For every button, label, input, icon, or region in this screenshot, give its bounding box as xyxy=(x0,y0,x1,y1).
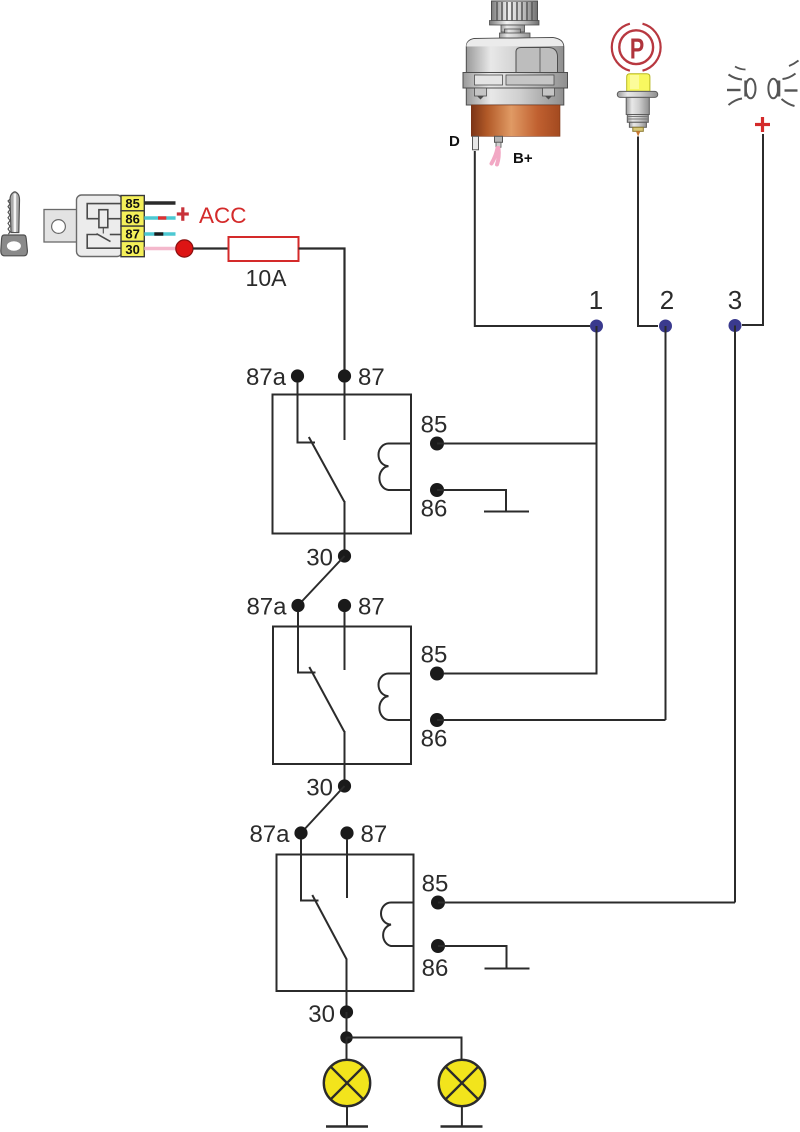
relay K2 common lead to terminal 30 xyxy=(344,731,346,786)
ignition key icon xyxy=(1,192,28,256)
wire relay K1 30 to relay K2 87a xyxy=(298,556,345,606)
alternator B+ pigtail wire (pink) xyxy=(492,148,499,165)
relay K3 terminal 87a xyxy=(294,826,307,839)
relay K2 terminal 87a xyxy=(291,599,304,612)
wire junction to lamp L1 xyxy=(346,1038,348,1061)
relay K1 contact 87a lead xyxy=(298,382,316,443)
wire headlight + to node 3 xyxy=(742,134,763,325)
svg-text:30: 30 xyxy=(125,242,139,257)
wire relay K3 30 to lamp junction xyxy=(346,1012,348,1038)
node 1 riser wire down to relay K2 85 xyxy=(444,326,597,674)
wire junction to lamp L2 xyxy=(347,1038,462,1061)
svg-text:86: 86 xyxy=(421,496,448,523)
relay K3 box xyxy=(277,855,414,992)
relay socket body xyxy=(77,195,123,257)
ground (relay K3 86) xyxy=(485,968,530,970)
wire pin 86 (cyan with red stripe) xyxy=(144,216,175,219)
svg-text:P: P xyxy=(630,33,644,65)
svg-text:87a: 87a xyxy=(246,594,287,621)
relay K1 terminal 87 xyxy=(338,369,351,382)
relay K3 contact 87 lead xyxy=(346,839,348,898)
relay K3 terminal 87 xyxy=(340,826,353,839)
wire pin 85 (black) xyxy=(144,201,175,205)
ground (lamp L2) xyxy=(441,1125,483,1127)
lamp L1 xyxy=(324,1060,370,1106)
wire pin 87 (cyan with black stripe) xyxy=(144,232,175,235)
wire relay K3 86 to ground xyxy=(438,946,507,969)
relay K1 terminal 87a xyxy=(291,369,304,382)
svg-text:87: 87 xyxy=(361,821,388,848)
wire alternator D to node 1 xyxy=(475,151,590,326)
brake switch push button (3D icon) xyxy=(617,74,657,137)
lamp L2 xyxy=(439,1060,485,1106)
svg-text:87: 87 xyxy=(358,594,385,621)
relay K1 contact 87 lead xyxy=(344,382,346,440)
relay K3 contact blade xyxy=(312,895,346,960)
relay K1 terminal 85 xyxy=(430,437,444,451)
relay K3 coil xyxy=(381,903,413,947)
relay K2 contact blade xyxy=(309,667,344,732)
svg-text:86: 86 xyxy=(125,211,139,226)
svg-text:30: 30 xyxy=(306,775,333,802)
relay K1 coil xyxy=(378,444,411,491)
fuse F1 xyxy=(229,237,299,261)
wire pin 30 (pink) xyxy=(144,247,178,250)
relay K3 terminal 30 xyxy=(340,1005,353,1018)
relay K1 common lead to terminal 30 xyxy=(344,501,346,556)
relay K2 terminal 30 xyxy=(338,779,351,792)
relay K1 box xyxy=(273,395,412,534)
relay K3 terminal 85 xyxy=(431,896,445,910)
relay K2 contact 87a lead xyxy=(298,612,316,673)
node 1 xyxy=(590,320,603,333)
node 3 riser wire xyxy=(734,326,736,903)
parking brake lamp symbol (P) xyxy=(612,24,661,71)
svg-text:85: 85 xyxy=(125,196,139,211)
node 2 riser wire xyxy=(665,326,667,720)
wire relay K2 30 to relay K3 87a xyxy=(301,786,345,833)
ground (relay K1 86) xyxy=(484,511,529,513)
svg-text:ACC: ACC xyxy=(199,203,247,228)
wire fuse to relay K1 pin 87 xyxy=(299,249,345,371)
svg-text:86: 86 xyxy=(421,726,448,753)
relay K2 terminal 85 xyxy=(430,667,444,681)
relay K2 box xyxy=(273,627,411,765)
svg-text:87a: 87a xyxy=(249,821,290,848)
svg-text:85: 85 xyxy=(422,871,449,898)
relay K1 terminal 30 xyxy=(338,549,351,562)
wire lamp L2 to ground xyxy=(461,1106,463,1126)
relay K2 contact 87 lead xyxy=(344,612,346,671)
svg-text:87: 87 xyxy=(125,227,139,242)
svg-text:1: 1 xyxy=(589,285,603,315)
relay K1 terminal 86 xyxy=(430,483,444,497)
svg-text:87a: 87a xyxy=(246,364,287,391)
wire splice to fuse xyxy=(193,247,229,249)
svg-text:85: 85 xyxy=(421,412,448,439)
relay K2 terminal 87 xyxy=(338,599,351,612)
svg-text:86: 86 xyxy=(422,955,449,982)
headlights symbol xyxy=(727,61,799,107)
relay socket pin strip xyxy=(121,196,144,257)
ground (lamp L1) xyxy=(326,1125,368,1127)
wire brake switch to node 2 xyxy=(638,137,658,327)
svg-text:85: 85 xyxy=(421,642,448,669)
wire relay K2 86 to node 2 riser xyxy=(437,719,666,721)
svg-text:3: 3 xyxy=(728,285,742,315)
relay K3 common lead to terminal 30 xyxy=(346,959,348,1012)
svg-text:B+: B+ xyxy=(513,150,533,167)
svg-text:30: 30 xyxy=(308,1001,335,1028)
wire lamp L1 to ground xyxy=(346,1106,348,1126)
lamp junction node xyxy=(340,1031,352,1043)
relay K3 terminal 86 xyxy=(431,939,445,953)
svg-text:D: D xyxy=(449,133,460,150)
node 2 xyxy=(659,320,672,333)
node 3 xyxy=(729,319,742,332)
svg-text:87: 87 xyxy=(358,364,385,391)
relay socket mounting tab xyxy=(44,210,77,243)
relay K1 contact blade xyxy=(309,437,344,502)
relay K2 terminal 86 xyxy=(430,713,444,727)
svg-text:30: 30 xyxy=(306,545,333,572)
relay K3 contact 87a lead xyxy=(301,839,319,901)
splice node (red) xyxy=(176,240,193,257)
wire relay K1 85 to node 1 riser xyxy=(437,443,597,445)
alternator G1 (3D icon) xyxy=(463,1,568,150)
polarity sign + of ACC feed xyxy=(177,207,189,221)
headlight supply polarity label + xyxy=(755,117,770,132)
relay internal schematic (coil + contact) xyxy=(87,204,121,249)
svg-text:10A: 10A xyxy=(246,265,288,291)
wire relay K1 86 to ground xyxy=(437,490,506,512)
wire relay K3 85 to node 3 riser xyxy=(438,902,735,904)
relay K2 coil xyxy=(379,674,411,721)
svg-text:2: 2 xyxy=(660,285,674,315)
